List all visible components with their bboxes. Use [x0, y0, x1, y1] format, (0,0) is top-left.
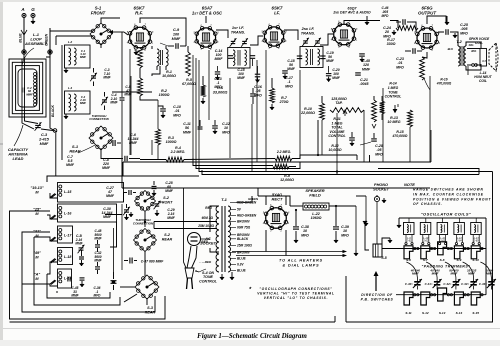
wire bus y165 [193, 158, 296, 167]
wire to V5 grid [412, 22, 416, 32]
wire S-1 front feeds [50, 31, 93, 52]
inductor L-10 oscillator coil [420, 223, 431, 245]
svg-text:L-18: L-18 [64, 255, 71, 259]
switch S-4 tone control [195, 260, 217, 283]
svg-text:MMF: MMF [165, 189, 174, 193]
wire vertical v6 [252, 60, 257, 172]
tube V4 6SQ7 [331, 7, 371, 49]
wire black lead [51, 105, 56, 176]
AC plug [185, 246, 197, 289]
switch S-2 Front [135, 191, 174, 212]
svg-text:C-43=: C-43= [461, 282, 469, 286]
svg-text:C-9: C-9 [173, 28, 180, 32]
svg-text:RED-GREEN: RED-GREEN [237, 201, 257, 205]
wire arrow to grid [109, 30, 128, 35]
switch S-11 range [404, 292, 413, 315]
svg-text:S-15: S-15 [472, 311, 479, 315]
svg-text:40Ω: 40Ω [470, 49, 477, 53]
svg-text:L-17: L-17 [64, 234, 72, 238]
capacitor C-28 .05 MFD [360, 133, 383, 156]
svg-text:330Ω: 330Ω [387, 42, 396, 46]
svg-text:P.B. SWITCHES: P.B. SWITCHES [361, 298, 394, 302]
svg-text:MMF: MMF [103, 76, 111, 80]
wire V3 plate to 2nd IF [284, 30, 298, 40]
svg-text:FRONT: FRONT [91, 10, 106, 15]
label note [404, 182, 491, 206]
svg-text:MFD: MFD [341, 233, 349, 237]
junction S2 [144, 221, 146, 223]
svg-text:MMF: MMF [94, 237, 102, 241]
svg-text:MMF: MMF [102, 166, 111, 170]
svg-text:1ST DET & OSC: 1ST DET & OSC [192, 10, 223, 15]
wire 2nd IF to V4 grid [320, 34, 333, 45]
svg-text:S-13: S-13 [439, 311, 446, 315]
capacitor C-12 10 MFD [212, 120, 230, 134]
svg-text:2ND DET AVC & AUDIO: 2ND DET AVC & AUDIO [332, 11, 371, 15]
svg-text:T-2: T-2 [456, 40, 462, 44]
wire heater lines [232, 230, 347, 267]
wire verticals x122 [122, 159, 123, 189]
capacitor C-34 dark [111, 272, 117, 290]
inductor L-12 oscillator coil [454, 223, 465, 245]
wire vertical v1 [192, 55, 194, 158]
resistor R-16 [420, 57, 452, 90]
capacitor C-23 .01 MFD [396, 48, 422, 69]
svg-text:←—RED: ←—RED [199, 260, 212, 264]
svg-text:MFD: MFD [94, 294, 102, 298]
svg-text:33,000Ω: 33,000Ω [213, 90, 228, 94]
capacitor C-49 cap [95, 262, 100, 274]
svg-text:S-8: S-8 [440, 258, 445, 262]
wire bus y171 [199, 167, 493, 172]
wire switch row1 bus [382, 247, 486, 249]
svg-text:1 MEG: 1 MEG [388, 86, 399, 90]
svg-text:MMF: MMF [94, 259, 102, 263]
wire top bus 6SA7 [101, 18, 152, 49]
transformer 2nd IF [300, 26, 323, 68]
svg-text:MMF: MMF [172, 37, 181, 41]
wire left column verticals [50, 45, 62, 160]
transformer 1st IF [228, 25, 250, 68]
svg-text:2-61: 2-61 [406, 240, 412, 243]
box antenna coil L-2 [65, 40, 91, 68]
svg-text:C-3: C-3 [41, 133, 48, 137]
wire field right [354, 196, 368, 256]
svg-text:10 MEG: 10 MEG [387, 120, 400, 124]
svg-text:IN MAX. COUNTER CLOCKWISE: IN MAX. COUNTER CLOCKWISE [413, 192, 484, 196]
tube V3 6SK7 IF [261, 6, 287, 51]
svg-text:2.2 MEG.: 2.2 MEG. [170, 150, 186, 154]
wire green lead [45, 28, 53, 54]
svg-text:L-16: L-16 [64, 212, 72, 216]
svg-text:Figure 1—Schematic Circuit Dia: Figure 1—Schematic Circuit Diagram [197, 333, 307, 340]
ground S2 front [129, 212, 133, 217]
caption figure 1 [197, 333, 307, 340]
svg-text:1900Ω: 1900Ω [159, 93, 170, 97]
ground top right of V4 [365, 16, 369, 25]
svg-text:TO ALL HEATERS: TO ALL HEATERS [279, 259, 323, 263]
capacitor C-2 loop cap [22, 86, 33, 96]
resistor R-1 10000 [130, 48, 176, 155]
svg-text:MMF: MMF [103, 215, 112, 219]
AC socket [184, 188, 217, 268]
svg-text:MMF: MMF [486, 272, 493, 276]
svg-text:C-37 680 MMF: C-37 680 MMF [141, 260, 165, 264]
svg-text:S-11: S-11 [405, 311, 412, 315]
wire pot wiper down [363, 110, 365, 162]
wire vertical v15 [467, 66, 469, 75]
svg-text:C-42=: C-42= [443, 282, 451, 286]
svg-text:RECT: RECT [272, 197, 283, 202]
svg-text:C-41=: C-41= [425, 282, 433, 286]
capacitor C-40 padding trimmer [405, 262, 422, 290]
inductor L-14 hum neut coil [474, 71, 492, 83]
switch S-5 phono [363, 221, 392, 260]
svg-text:T-1: T-1 [221, 197, 228, 202]
svg-text:2.2 MEG.: 2.2 MEG. [276, 150, 291, 154]
label trimmer range 1 [429, 268, 440, 275]
svg-text:ASSEMBLY: ASSEMBLY [24, 41, 47, 46]
capacitor C-10 .01 MFD [158, 105, 181, 118]
capacitor C-4 2-10 MMF trimmer [101, 92, 119, 110]
switch S-15 range [471, 292, 480, 315]
svg-text:25M 100Ω: 25M 100Ω [236, 244, 252, 248]
svg-text:NOTE: NOTE [404, 182, 415, 187]
svg-text:MMF: MMF [412, 272, 419, 276]
potentiometer R-11 volume control [328, 108, 364, 139]
switch S-2 Rear [134, 229, 173, 252]
svg-text:2-415: 2-415 [38, 137, 50, 141]
inductor L-18 band coil [33, 248, 72, 265]
inductor L-16 band coil [33, 204, 116, 222]
capacitor C-48 5600 MMF [94, 229, 102, 252]
svg-text:270Ω: 270Ω [279, 100, 289, 104]
svg-text:"49": "49" [33, 251, 41, 255]
switch S-7 range [421, 246, 430, 262]
capacitor C-25 .005 MFD [438, 23, 469, 38]
capacitor C-30 14-344 MMF [102, 204, 130, 220]
node G antenna terminal [31, 7, 35, 24]
svg-text:S-14: S-14 [456, 311, 463, 315]
svg-text:1060Ω: 1060Ω [311, 216, 322, 220]
label through connection upper [89, 114, 109, 121]
capacitor C-20 100 MMF [326, 66, 341, 82]
wire vertical v10 [336, 113, 338, 172]
capacitor C-27 47 MMF [106, 186, 136, 198]
svg-text:MFD: MFD [214, 85, 222, 89]
svg-text:2-65: 2-65 [473, 240, 479, 243]
svg-text:BLUE: BLUE [237, 257, 247, 261]
svg-text:S-6: S-6 [406, 258, 411, 262]
switch S-10 range [471, 246, 480, 262]
label oscillator coils [421, 212, 472, 217]
speaker [467, 37, 498, 71]
capacitor C-8 220 MMF [66, 140, 121, 167]
svg-text:"A": "A" [34, 273, 41, 277]
svg-text:2-64: 2-64 [456, 240, 462, 243]
svg-text:CONNECTION: CONNECTION [133, 222, 154, 226]
wire band box inner5 [22, 284, 57, 312]
phono socket [373, 183, 390, 244]
svg-text:S-12: S-12 [422, 311, 429, 315]
svg-text:LEAD: LEAD [13, 156, 24, 161]
svg-text:S-5: S-5 [381, 256, 386, 260]
wire bus fan steps [318, 120, 370, 162]
label trimmer range 2 [449, 268, 459, 275]
svg-text:MMF: MMF [183, 130, 192, 134]
svg-text:MMF: MMF [71, 294, 79, 298]
svg-text:MMF: MMF [124, 93, 132, 97]
capacitor C-16 .05 MFD [250, 85, 263, 104]
capacitor C-3 7-10 MMF trimmer [90, 68, 112, 86]
svg-text:10,000Ω: 10,000Ω [328, 148, 341, 152]
wire bus y158 [140, 154, 357, 160]
capacitor C-29 2-16 MMF [154, 201, 176, 220]
svg-text:470,000Ω: 470,000Ω [436, 81, 452, 85]
svg-text:I.F.: I.F. [274, 11, 280, 16]
label range trimmers [422, 264, 471, 268]
label C-5 47 MMF [120, 32, 133, 158]
svg-text:VERTICAL "HI" TO TEST TERMINAL: VERTICAL "HI" TO TEST TERMINAL [257, 291, 334, 295]
svg-text:40Ω: 40Ω [468, 43, 474, 47]
wire bus y174 [202, 170, 479, 175]
wire vertical left1 [130, 76, 132, 155]
svg-text:MMF: MMF [75, 242, 83, 246]
svg-text:TAP.: TAP. [335, 101, 342, 105]
capacitor C-41 padding trimmer [425, 262, 442, 290]
capacitor C-37 680 MMF [124, 258, 164, 264]
wire bus y168 [196, 162, 479, 175]
wire bottom left border [10, 316, 336, 322]
svg-text:MFD: MFD [301, 233, 309, 237]
svg-text:CONTROL: CONTROL [199, 279, 217, 283]
svg-text:MMF: MMF [450, 272, 457, 276]
svg-text:FRONT: FRONT [160, 200, 173, 204]
svg-text:S-9: S-9 [456, 258, 461, 262]
svg-text:"25": "25" [33, 208, 41, 212]
wire S-1 rear to bus [101, 148, 140, 159]
wire screen bus [422, 52, 427, 58]
capacitor C-14 100 MMF [215, 49, 256, 66]
inductor L-13 oscillator coil [471, 223, 482, 245]
wire rect plates [258, 196, 290, 206]
switch S-13 range [438, 288, 447, 315]
speaker field choke L-22 [290, 188, 356, 220]
tube V5 6F6G output [414, 6, 441, 53]
resistor R-2 1900 [138, 68, 170, 100]
switch S-1 Front [90, 6, 112, 46]
svg-text:S-10: S-10 [472, 258, 479, 262]
svg-text:MMF: MMF [66, 163, 75, 167]
svg-text:OF CHASSIS.: OF CHASSIS. [413, 202, 443, 206]
label direction of PB switches [361, 271, 394, 302]
svg-text:POSITION & VIEWED FROM FRONT: POSITION & VIEWED FROM FRONT [413, 197, 491, 201]
transformer T-2 output [448, 40, 477, 66]
resistor R-14 tone control [380, 82, 402, 121]
wire band box 3 [34, 237, 120, 305]
svg-text:BROWN: BROWN [237, 251, 250, 255]
svg-text:"OSCILLATOR COILS": "OSCILLATOR COILS" [421, 212, 472, 217]
svg-text:25M 10.5Ω: 25M 10.5Ω [197, 224, 214, 228]
svg-text:MMF: MMF [106, 194, 115, 198]
wire vertical v2 [195, 58, 197, 162]
capacitor C-45 120 MMF [359, 54, 371, 72]
svg-text:RED: RED [205, 206, 212, 210]
inductor L-11 oscillator coil [437, 223, 448, 245]
svg-text:R.F.: R.F. [135, 11, 143, 16]
node A antenna terminal [20, 7, 27, 50]
capacitor C-19 56 MMF [320, 51, 335, 63]
svg-text:100: 100 [173, 32, 180, 36]
switch S-8 range [438, 242, 447, 262]
capacitor C-13 .1 MFD [214, 66, 222, 89]
wire band box outer [10, 211, 166, 319]
inductor L-2 osc coil [157, 46, 168, 70]
wire T-2 secondary to speaker [466, 42, 481, 70]
svg-text:DIRECTION OF: DIRECTION OF [361, 293, 393, 297]
wire IF to V3 grid [250, 36, 263, 45]
wire grid caps [152, 66, 160, 76]
inductor L-15 band coil [30, 183, 123, 203]
svg-text:470,000Ω: 470,000Ω [392, 134, 408, 138]
svg-text:TRANS.: TRANS. [231, 30, 245, 35]
tube V6 5Y4G rectifier [263, 192, 290, 232]
capacitor C-15 100 MMF [237, 66, 260, 83]
svg-text:REAR: REAR [162, 237, 173, 241]
svg-text:22,000Ω: 22,000Ω [300, 111, 315, 115]
capacitor C-9 100 MMF [160, 28, 186, 49]
wire V4 plate to C-22 [344, 21, 398, 29]
svg-text:67,000Ω: 67,000Ω [182, 82, 196, 86]
wire plate V1 to IF [140, 18, 188, 48]
svg-text:MMF: MMF [110, 101, 118, 105]
capacitor C-24 20 MFD [383, 19, 412, 38]
svg-text:SOCKET: SOCKET [373, 187, 390, 191]
resistor R-17 330 [387, 26, 418, 47]
svg-text:COIL: COIL [475, 41, 483, 45]
resistor R-15 470000 [392, 110, 413, 138]
wire plate to T-2 [455, 32, 458, 46]
wire V5 plate [427, 16, 446, 32]
capacitor C-38 10 MFD [293, 209, 309, 243]
svg-text:10,000Ω: 10,000Ω [162, 74, 176, 78]
svg-text:1000Ω: 1000Ω [166, 140, 177, 144]
svg-text:MMF: MMF [287, 67, 296, 71]
svg-text:MFD: MFD [460, 31, 468, 35]
svg-text:CONTROL: CONTROL [385, 95, 402, 99]
wire vertical v12 [397, 104, 399, 107]
switch S-9 range [454, 246, 463, 262]
resistor R-7 270 [270, 78, 289, 110]
capacitor C-17 .1 MFD [282, 71, 294, 89]
svg-text:MFD: MFD [222, 130, 230, 134]
wire vertical v4 [208, 50, 210, 120]
svg-text:BLUE: BLUE [19, 33, 23, 43]
transformer T-1 power [197, 197, 257, 280]
resistor R-6 33000 [201, 76, 228, 104]
wire bus y176 left [47, 176, 199, 182]
switch S-14 range [454, 292, 463, 315]
tube V1 6SK7 RF [127, 6, 154, 52]
inductor L-19 band coil [34, 269, 72, 288]
capacitor C-6 14-344 MMF [128, 133, 139, 145]
svg-text:MFD: MFD [375, 152, 383, 156]
svg-text:BROWN: BROWN [237, 220, 250, 224]
ground coil boxes [64, 68, 68, 119]
switch S-1 Rear [69, 43, 152, 154]
svg-text:MMF: MMF [468, 272, 475, 276]
wire vertical v8 [299, 70, 301, 158]
svg-text:60M 3Ω: 60M 3Ω [202, 216, 214, 220]
capacitor C-18 56 MMF [287, 56, 302, 71]
wire vertical v11 [382, 88, 384, 162]
wire bus y188 [122, 187, 430, 189]
svg-text:"OSCILLOGRAPH CONNECTIONS": "OSCILLOGRAPH CONNECTIONS" [259, 287, 332, 291]
wire right border [346, 172, 493, 323]
label trimmer range 3 [467, 268, 477, 275]
svg-text:.0045: .0045 [360, 82, 370, 86]
svg-text:MMF: MMF [332, 76, 341, 80]
wire S2 connections [120, 212, 147, 305]
tube V2 6SA7 1st det osc [192, 6, 223, 52]
resistor R-12 10000 [328, 132, 354, 152]
svg-text:MMF: MMF [237, 76, 246, 80]
svg-text:MMF: MMF [129, 141, 138, 145]
svg-text:BLUE: BLUE [237, 269, 247, 273]
svg-text:60M 75Ω: 60M 75Ω [237, 226, 251, 230]
svg-text:MMF: MMF [326, 59, 335, 63]
wire V2 plate to IF transformer [206, 16, 228, 38]
svg-text:BLACK: BLACK [51, 105, 55, 117]
svg-text:& DIAL LAMPS: & DIAL LAMPS [283, 263, 320, 267]
svg-text:MFD: MFD [396, 65, 404, 69]
svg-text:2-62: 2-62 [422, 240, 428, 243]
inductor L-9 oscillator coil [404, 223, 415, 245]
capacitor C-28 68 MMF [152, 181, 174, 196]
svg-text:L-15: L-15 [64, 190, 72, 194]
svg-text:RED-GREEN: RED-GREEN [237, 214, 257, 218]
inductor L-1 loop antenna [9, 32, 50, 117]
svg-text:"PADDING TRIMMERS": "PADDING TRIMMERS" [422, 264, 471, 268]
wire vertical v9 [321, 120, 323, 155]
resistor R-9 12000 [273, 164, 294, 182]
svg-text:G: G [31, 7, 35, 12]
capacitor C-11 56 MMF [183, 120, 203, 134]
capacitor C-43 padding trimmer [461, 262, 478, 290]
label oscillograph connections [249, 286, 335, 300]
svg-text:12,000Ω: 12,000Ω [280, 178, 294, 182]
wire switch row2 bus [396, 294, 486, 296]
wire band steps [22, 193, 58, 286]
svg-text:S-7: S-7 [423, 258, 428, 262]
label 125000 tap [331, 97, 347, 105]
capacitor C-21 [355, 73, 369, 86]
inductor L-17 band coil [33, 226, 72, 243]
label trimmer range 4 [486, 268, 494, 275]
svg-text:PHONO: PHONO [374, 183, 388, 187]
svg-text:MMF: MMF [215, 57, 224, 61]
svg-text:MMF: MMF [26, 92, 33, 96]
svg-text:MMF: MMF [40, 142, 49, 146]
svg-text:TRANS.: TRANS. [301, 31, 315, 36]
svg-text:FIELD: FIELD [309, 193, 321, 198]
wire blue lead [19, 33, 27, 55]
wire band col verticals [105, 193, 124, 273]
capacitor C-39 10 MFD [333, 205, 349, 243]
ground output [445, 16, 449, 25]
svg-text:MMF: MMF [80, 55, 86, 59]
svg-text:"19-13": "19-13" [30, 186, 44, 190]
